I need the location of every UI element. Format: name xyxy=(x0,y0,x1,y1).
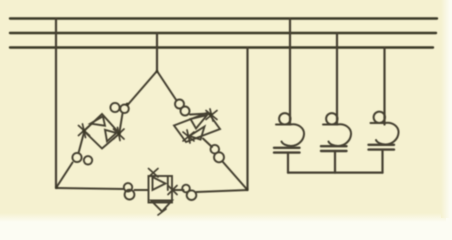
inductor Lc1 (bottom branch left coil) xyxy=(124,183,135,199)
wire: drop from L2 to delta apex xyxy=(156,33,158,71)
junction blob at left branch coil entry xyxy=(126,103,129,106)
wire: from right unit bottom node down-right xyxy=(203,139,212,148)
wire: into left thyristor unit right node xyxy=(120,114,123,133)
capacitor C3 plates xyxy=(369,145,395,173)
bus line L1 (top phase) xyxy=(10,17,437,19)
thyristor pair V1 (left branch anti-parallel thyristors) xyxy=(79,114,125,149)
inductor Lb1 (right branch upper coil) xyxy=(175,100,190,116)
wire: capacitor branch 2 drop from L2 xyxy=(336,33,338,125)
filter reactor loop of capacitor branch 1 xyxy=(276,113,304,146)
thyristor pair V3 (bottom branch anti-parallel thyristors) xyxy=(149,169,178,216)
junction blob at delta bottom-left corner xyxy=(55,186,58,189)
wire: capacitor branch 1 drop from L1 xyxy=(289,19,291,125)
capacitor C1 plates xyxy=(274,148,300,173)
wire: drop from L3 to delta bottom-right corner xyxy=(246,48,248,191)
filter reactor loop of capacitor branch 3 xyxy=(371,112,399,145)
wire: into right thyristor unit top node xyxy=(190,114,209,115)
inductor La1 (left branch upper coil) xyxy=(110,103,128,113)
inductor La2 (left branch lower coil) xyxy=(72,153,92,165)
junction blob at left unit right node xyxy=(117,132,121,136)
wire: delta left side lower segment to corner xyxy=(56,163,73,189)
wire: drop from L1 to delta bottom-left corner xyxy=(55,19,57,189)
thyristor pair V2 (right branch anti-parallel thyristors) xyxy=(174,109,220,143)
wire: delta bottom side between thyristors and right coil xyxy=(172,189,184,191)
inductor Lb2 (right branch lower coil) xyxy=(211,145,225,162)
bus line L2 (middle phase) xyxy=(10,32,436,34)
junction blob at left unit left node xyxy=(82,129,86,133)
wire: delta right side lower segment to corner xyxy=(223,162,248,191)
wire: capacitor bank common bus xyxy=(288,172,383,174)
wire: delta bottom side left segment xyxy=(56,188,124,189)
wire: delta left side upper segment xyxy=(128,71,157,105)
wire: from left unit node down-left xyxy=(79,133,85,154)
wire: delta right side upper segment xyxy=(157,71,177,101)
bus line L3 (bottom phase) xyxy=(10,46,433,48)
wire: delta bottom side right segment xyxy=(197,190,248,192)
filter reactor loop of capacitor branch 2 xyxy=(323,113,351,146)
wire: capacitor branch 3 drop from L3 xyxy=(383,48,385,125)
inductor Lc2 (bottom branch right coil) xyxy=(182,185,196,200)
capacitor C2 plates xyxy=(321,146,347,172)
wire: delta bottom side between coil and thyristors xyxy=(135,189,149,191)
junction blob at delta apex xyxy=(156,70,159,73)
junction blob at delta bottom-right corner xyxy=(245,188,248,191)
junction blob at right unit top node xyxy=(209,113,212,116)
